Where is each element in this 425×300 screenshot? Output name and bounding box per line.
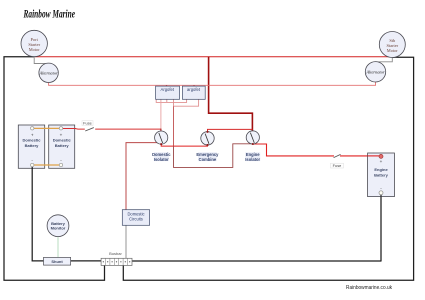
wire: battery negative link — [32, 164, 61, 166]
wire: domestic isolator to emergency combine bottom link — [161, 144, 207, 146]
svg-text:+: + — [60, 133, 63, 138]
svg-text:Alternator: Alternator — [365, 69, 385, 74]
label S2 — [196, 152, 219, 162]
svg-text:Rainbowmarine.co.uk: Rainbowmarine.co.uk — [346, 285, 392, 291]
svg-text:Busbar: Busbar — [109, 251, 122, 256]
wire: alternator charge line — [49, 82, 376, 85]
resistor shunt — [44, 257, 71, 265]
wire: battery negative exit stub — [31, 165, 33, 169]
svg-text:Battery: Battery — [374, 173, 389, 178]
wire: crimson feed starter bus to engine isolator — [209, 57, 253, 131]
battery B3 engine — [368, 153, 395, 197]
svg-text:Monitor: Monitor — [51, 226, 66, 231]
wire: engine isolator to engine battery positive — [253, 144, 381, 156]
svg-text:Shunt: Shunt — [51, 259, 63, 264]
svg-text:Battery: Battery — [55, 143, 70, 148]
svg-text:Engine: Engine — [374, 167, 388, 172]
wire: argofet underlink B — [174, 99, 199, 106]
svg-text:Fuse: Fuse — [333, 163, 342, 168]
svg-text:Argofet: Argofet — [161, 87, 175, 92]
svg-text:Isolator: Isolator — [245, 157, 260, 162]
wire: argofet to domestic isolator — [160, 99, 162, 128]
box U1 Argofet left — [156, 86, 180, 99]
wire: argofet top stubs — [167, 85, 195, 86]
wire: battery positive link — [32, 127, 61, 129]
wire: dark elbow junction to engine isolator bottom — [174, 144, 253, 168]
meter battery monitor — [47, 215, 69, 237]
wire: battery positive exit stub — [61, 128, 76, 130]
alternator G2 stb — [365, 62, 385, 82]
wire: emergency combine top link — [208, 129, 253, 131]
wire: battery monitor to shunt — [57, 237, 59, 258]
motor M2 stb starter — [379, 32, 405, 58]
alternator G1 port — [38, 63, 58, 82]
wire: port engine link — [34, 57, 45, 64]
wire: domestic circuits feed — [126, 143, 158, 210]
junction dots at isolator terminals — [160, 131, 253, 146]
switch S3 engine isolator — [246, 131, 259, 144]
fuse symbol engine — [334, 154, 341, 157]
wire: busbar to engine battery negative — [132, 195, 381, 262]
svg-text:Domestic: Domestic — [22, 138, 41, 143]
svg-text:Motor: Motor — [29, 47, 41, 52]
box U2 argofet right — [182, 86, 205, 99]
label S1 — [152, 152, 171, 162]
wire: argofet underlink A — [156, 99, 186, 102]
svg-text:Combine: Combine — [199, 157, 217, 162]
wire: port starter negative to bottom loop — [4, 57, 105, 280]
svg-text:Rainbow Marine: Rainbow Marine — [23, 7, 76, 21]
fuse symbol domestic — [85, 128, 94, 131]
svg-text:+: + — [380, 159, 383, 164]
svg-text:+: + — [31, 133, 34, 138]
svg-text:Domestic: Domestic — [53, 138, 72, 143]
label fuse F1 — [82, 121, 93, 126]
wire: main starter positive bus — [35, 56, 391, 58]
switch S1 domestic isolator — [155, 131, 168, 144]
wire: argofet pin down to junction — [173, 99, 175, 106]
svg-text:Battery: Battery — [25, 143, 40, 148]
battery B2 domestic — [49, 125, 75, 168]
svg-text:Fuse: Fuse — [83, 121, 92, 126]
wire: stb engine link — [379, 57, 393, 62]
svg-text:argofet: argofet — [187, 87, 201, 92]
svg-text:Circuits: Circuits — [129, 217, 143, 222]
wire: stb starter negative to bottom loop — [123, 57, 413, 280]
label S3 — [245, 152, 260, 162]
wire: domestic circuits to busbar — [125, 225, 127, 258]
wire: domestic battery fuse line — [62, 128, 161, 131]
switch S2 emergency combine — [201, 132, 214, 145]
motor M1 port starter — [21, 30, 47, 56]
svg-text:Motor: Motor — [387, 48, 399, 53]
box domestic circuits — [122, 210, 149, 226]
wire: shunt to busbar — [71, 260, 102, 262]
svg-text:Alternator: Alternator — [38, 70, 58, 75]
terminal posts domestic batteries — [31, 127, 63, 167]
busbar terminal strip — [101, 258, 132, 265]
wire: domestic battery negative to shunt — [32, 168, 43, 261]
label fuse F2 — [331, 163, 344, 168]
battery B1 domestic — [18, 125, 44, 168]
svg-text:Isolator: Isolator — [154, 157, 169, 162]
